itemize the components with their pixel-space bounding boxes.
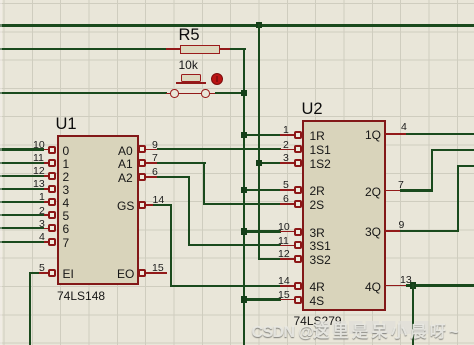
U1 part number label 74LS148: [57, 289, 105, 303]
wire: A2 east then corner (y=176.8 to x=189.2): [157, 176, 191, 178]
U2 pin number 5: [283, 179, 289, 191]
U1 pin 14 bubble (GS): [138, 201, 146, 209]
U1 pin name A0: [118, 144, 133, 158]
watermark CSDN backing blocks: [316, 321, 432, 334]
U1 pin number 3: [39, 218, 45, 230]
U1 pin 4 bubble: [48, 238, 56, 246]
U1 pin number 15: [152, 262, 164, 274]
wire: 4Q vertical down to bottom edge (x=412.6): [412, 284, 414, 345]
U2 pin name 3S1: [310, 239, 331, 253]
junction: button wire on V1: [241, 90, 247, 96]
wire: A1 vertical (x=204) down to 2S row: [203, 162, 205, 205]
wire: 3Q vertical up (x=456.9): [457, 165, 459, 232]
junction: V1 at 2R row: [241, 187, 247, 193]
U2 pin number 11: [278, 235, 289, 247]
wire: R5 right terminal to vertical net V1: [230, 48, 246, 50]
U2 pin name 1Q: [365, 128, 381, 142]
button SW left pin: [166, 93, 171, 95]
U2 pin 1 bubble: [294, 131, 302, 139]
U2 pin number 1: [283, 124, 289, 136]
U2 pin 6 bubble: [294, 200, 302, 208]
wire: horizontal into R5 left terminal (y=49.3): [0, 48, 167, 50]
wire: input 6 row (y=228.4): [0, 227, 44, 229]
U1 pin 15 bubble (EO): [138, 269, 146, 277]
U1 pin 15 stub (unconnected): [146, 272, 167, 274]
wire: A2 to U2 3S1 (y=245.4): [188, 244, 281, 246]
U1 pin name 5: [63, 209, 70, 223]
U1 pin name 6: [63, 222, 70, 236]
wire: V2 corner to 3S2 (y=258.8): [258, 258, 281, 260]
U1 pin 11 stub: [44, 162, 49, 164]
button SW left terminal ring: [170, 89, 179, 98]
wire: input 0 row (y=149.5): [0, 148, 44, 150]
wire: horizontal into button left terminal (y=93.4): [0, 92, 167, 94]
resistor R5 left pin: [166, 48, 181, 50]
U1 pin name 2: [63, 170, 70, 184]
wire: 4Q to right edge (y=285.5): [406, 284, 474, 286]
U1 pin 7 bubble (A1): [138, 159, 146, 167]
U1 pin name GS: [117, 199, 134, 213]
wire: GS to U2 4R (y=286): [170, 285, 281, 287]
U1 pin number 14: [153, 194, 165, 206]
U1 pin name A1: [118, 157, 133, 171]
junction: 4Q branch: [410, 282, 416, 288]
wire: A1 to U2 2S (y=204.3): [203, 203, 281, 205]
U2 pin name 4R: [310, 280, 325, 294]
U2 pin name 4S: [310, 294, 325, 308]
U1 pin name 4: [63, 196, 70, 210]
U2 pin number 10: [278, 221, 290, 233]
U2 pin name 1S2: [310, 157, 331, 171]
wire: A2 vertical (x=189.2) down to 3S1 row: [188, 176, 190, 247]
wire: V1 to 2R (y=190.3): [243, 189, 281, 191]
junction: V1 at 3R row: [241, 228, 247, 234]
U2 reference label: [302, 100, 323, 119]
junction: V2 at 1S2 row: [256, 160, 262, 166]
wire: top horizontal net (y=25) full width: [0, 24, 474, 26]
U1 pin number 10: [33, 139, 45, 151]
U2 pin 2 bubble: [294, 145, 302, 153]
U2 pin 9 stub (3Q): [385, 230, 401, 232]
U1 pin number 9: [152, 139, 158, 151]
U1 pin 10 bubble: [48, 146, 56, 154]
wire: A1 east then corner (y=163.3 to x=204): [157, 162, 207, 164]
wire: V1 to 4S (y=299.5): [243, 298, 281, 300]
U2 pin number 14: [278, 275, 290, 287]
U2 pin 1 stub: [280, 134, 294, 136]
U2 pin number 9: [399, 219, 405, 231]
U1 pin number 4: [39, 231, 45, 243]
U1 pin number 5: [39, 262, 45, 274]
button SW right terminal ring: [201, 89, 210, 98]
button SW interactive red actuator: [211, 73, 223, 85]
U2 pin 11 bubble: [294, 241, 302, 249]
U2 pin name 3Q: [365, 225, 381, 239]
U1 pin 12 bubble: [48, 172, 56, 180]
U1 pin number 1: [39, 191, 45, 203]
U2 pin 15 stub: [280, 299, 294, 301]
watermark CSDN text: [252, 318, 462, 342]
U1 pin 9 stub: [146, 149, 157, 151]
U1 pin number 2: [39, 205, 45, 217]
U1 pin 10 stub: [44, 149, 49, 151]
U1 pin 2 stub: [44, 214, 49, 216]
U2 pin number 13: [400, 274, 412, 286]
U2 pin 15 bubble: [294, 296, 302, 304]
U2 pin 6 stub (2S, fed by A1 wire): [280, 203, 294, 205]
junction: V1 at 4S row: [241, 296, 247, 302]
U2 part number label 74LS279: [294, 314, 342, 328]
button SW right pin: [210, 93, 215, 95]
U2 pin 12 bubble: [294, 255, 302, 263]
U1 pin name A2: [118, 171, 133, 185]
U1 pin number 12: [33, 165, 45, 177]
U2 pin number 6: [283, 193, 289, 205]
U2 pin 7 stub (2Q): [385, 190, 401, 192]
op U1 74LS148 body: [57, 135, 139, 285]
resistor R5 body: [180, 45, 220, 54]
U2 pin 10 bubble: [294, 228, 302, 236]
U2 pin 3 stub: [280, 162, 294, 164]
U2 pin 14 stub (4R, fed by GS wire): [280, 285, 294, 287]
wire: 2Q top segment to right edge (y=150): [431, 149, 474, 151]
wire: GS east then corner (y=204.8 to x=171): [153, 204, 173, 206]
U2 pin name 2S: [310, 198, 325, 212]
U2 pin number 12: [278, 248, 290, 260]
wire: EI vertical to bottom edge: [29, 272, 31, 345]
U1 pin name EI: [63, 267, 74, 281]
wire: 3Q east segment (y=231): [400, 230, 459, 232]
U1 pin number 11: [33, 152, 44, 164]
wire: 1Q to right edge (y=134.2): [406, 133, 474, 135]
U2 pin 5 bubble: [294, 186, 302, 194]
U2 pin 14 bubble: [294, 282, 302, 290]
U2 pin 10 stub: [280, 231, 294, 233]
U1 pin 1 bubble: [48, 198, 56, 206]
U2 pin number 15: [278, 289, 290, 301]
U1 reference label: [56, 115, 77, 134]
U1 pin 11 bubble: [48, 159, 56, 167]
wire: V1 to 3R (y=231.5): [243, 230, 281, 232]
wire: 3Q top segment to right edge (y=166): [457, 165, 474, 167]
U1 pin name 3: [63, 183, 70, 197]
U1 pin name 1: [63, 157, 70, 171]
U2 pin number 2: [283, 139, 289, 151]
button SW actuator cap: [181, 74, 201, 81]
U1 pin 13 stub: [44, 188, 49, 190]
resistor R5 reference label: [179, 26, 200, 45]
button SW actuator bar: [176, 82, 207, 84]
button SW actuator mark: [216, 76, 218, 83]
wire: GS vertical (x=171) down to 4R row: [170, 204, 172, 287]
U1 pin name 7: [63, 236, 70, 250]
U1 pin 6 bubble (A2): [138, 173, 146, 181]
screen left edge highlight: [0, 0, 2, 345]
wire: 2Q vertical up (x=430.9): [431, 149, 433, 192]
U2 pin name 3S2: [310, 253, 331, 267]
junction: V1 at 1R row: [241, 132, 247, 138]
wire: vertical net V2 from top wire down to 3S2 row: [258, 24, 260, 260]
U2 pin name 2Q: [365, 185, 381, 199]
wire: input 2 row (y=175.8): [0, 175, 44, 177]
U1 pin 12 stub: [44, 175, 49, 177]
U1 pin 7 stub: [146, 162, 157, 164]
resistor R5 right pin: [220, 48, 230, 50]
U1 pin 6 stub: [146, 176, 157, 178]
U2 pin number 7: [398, 179, 404, 191]
U2 pin name 1S1: [310, 143, 331, 157]
U1 pin name EO: [117, 267, 134, 281]
resistor R5 value label 10k: [179, 58, 198, 72]
junction: top wire to vertical feed of U2 S-inputs: [256, 22, 262, 28]
U2 pin 5 stub: [280, 189, 294, 191]
U1 pin 14 stub: [146, 204, 153, 206]
U1 pin 2 bubble: [48, 211, 56, 219]
wire: input 7 row (y=241.6): [0, 241, 44, 243]
U1 pin 3 bubble: [48, 224, 56, 232]
U2 pin name 2R: [310, 184, 325, 198]
U1 pin 4 stub: [44, 241, 49, 243]
op U2 74LS279 body: [302, 120, 386, 311]
wire: input 4 row (y=202.1): [0, 201, 44, 203]
U1 pin number 7: [152, 152, 158, 164]
wire: 2Q east segment (y=190.5): [400, 189, 433, 191]
U1 pin 13 bubble: [48, 185, 56, 193]
button SW internal bar between terminals: [179, 93, 202, 95]
U2 pin name 1R: [310, 129, 325, 143]
U2 pin name 4Q: [365, 280, 381, 294]
U1 pin name 0: [63, 144, 70, 158]
wire: input 5 row (y=215.3): [0, 214, 44, 216]
U2 pin 4 stub (1Q): [385, 133, 407, 135]
U1 pin number 13: [33, 178, 45, 190]
wire: A0 to U2 1S1 (y=149.4): [157, 148, 282, 150]
wire: vertical net V1 (x=243.6) from R5 wire down to bottom edge: [243, 48, 245, 345]
U2 pin 2 stub (1S1, fed by A0 wire): [280, 149, 294, 151]
U1 pin 5 stub (EI): [39, 272, 49, 274]
U2 pin number 3: [283, 152, 289, 164]
U1 pin 9 bubble (A0): [138, 145, 146, 153]
U1 pin number 6: [152, 166, 158, 178]
wire: input 1 row (y=162.7): [0, 162, 44, 164]
U1 pin 1 stub: [44, 201, 49, 203]
U2 pin name 3R: [310, 226, 325, 240]
U2 pin number 4: [401, 121, 407, 133]
wire: V2 to 1S2 (y=163.3): [258, 162, 281, 164]
wire: input 3 row (y=189.0): [0, 188, 44, 190]
U2 pin 13 stub (4Q): [385, 285, 407, 287]
U2 pin 11 stub (3S1, fed by A2 wire): [280, 245, 294, 247]
wire: EI feed corner down to bottom edge: [29, 272, 40, 274]
U2 pin 3 bubble: [294, 159, 302, 167]
U1 pin 3 stub: [44, 228, 49, 230]
wire: V1 to 1R (y=135.3): [243, 134, 281, 136]
wire: button right terminal to vertical net V1: [215, 92, 244, 94]
U2 pin 12 stub: [280, 258, 294, 260]
U1 pin 5 bubble: [48, 269, 56, 277]
